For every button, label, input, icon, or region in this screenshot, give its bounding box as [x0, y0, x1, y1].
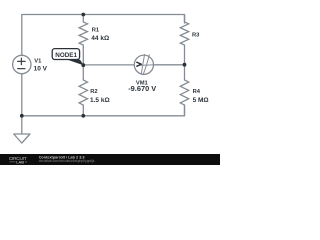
- svg-text:circuitlab.com/circuits/c6xkph: circuitlab.com/circuits/c6xkphp6ypp6jk: [39, 159, 95, 163]
- svg-text:-9.670 V: -9.670 V: [128, 84, 156, 93]
- svg-text:R4: R4: [193, 89, 201, 95]
- svg-text:LAB: LAB: [16, 161, 24, 165]
- svg-text:R3: R3: [192, 32, 200, 38]
- svg-text:10 V: 10 V: [34, 65, 48, 72]
- svg-text:44 kΩ: 44 kΩ: [91, 35, 109, 42]
- svg-text:1.5 kΩ: 1.5 kΩ: [90, 97, 110, 104]
- svg-text:R2: R2: [90, 89, 97, 95]
- svg-text:R1: R1: [92, 28, 100, 34]
- svg-text:V1: V1: [34, 59, 42, 65]
- svg-text:5 MΩ: 5 MΩ: [193, 97, 209, 104]
- svg-text:NODE1: NODE1: [55, 52, 77, 59]
